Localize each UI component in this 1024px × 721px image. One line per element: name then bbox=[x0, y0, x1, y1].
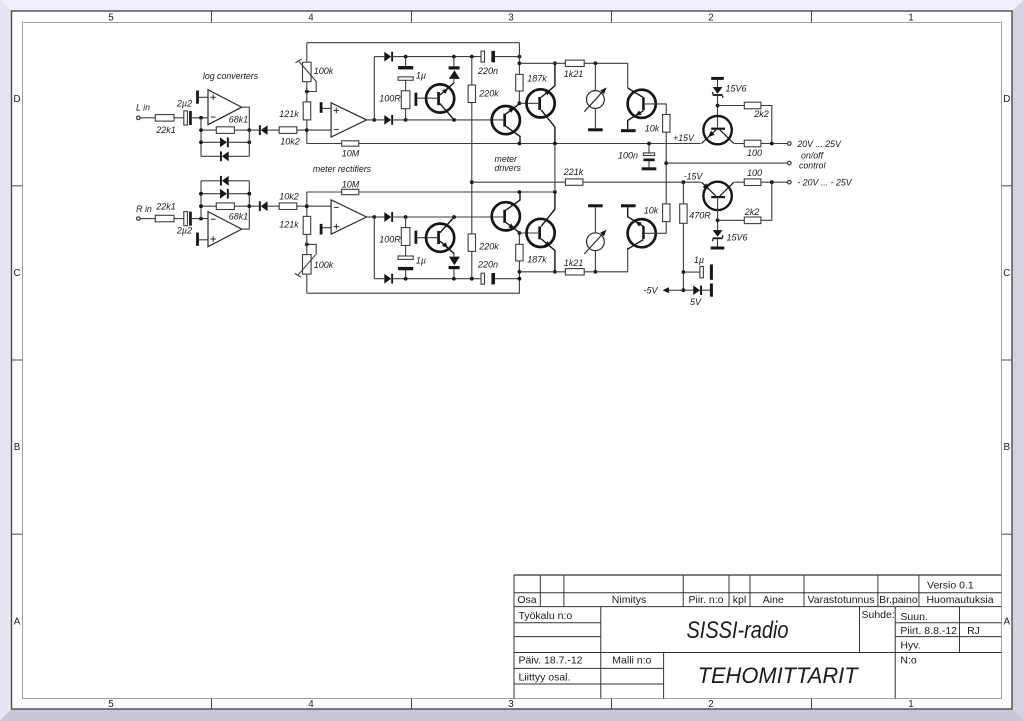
diode D1 (L clamp, right) bbox=[220, 137, 229, 147]
wire bottom rail bbox=[307, 272, 520, 293]
wire bbox=[374, 119, 384, 121]
diode D2 (L clamp, left) bbox=[220, 151, 229, 161]
node +V terminal bbox=[788, 142, 792, 146]
svg-text:A: A bbox=[1004, 617, 1011, 628]
svg-text:TEHOMITTARIT: TEHOMITTARIT bbox=[698, 663, 860, 688]
wire on/off line bbox=[666, 162, 787, 164]
node U4 output bbox=[372, 215, 376, 219]
svg-text:187k: 187k bbox=[527, 255, 547, 265]
node -5V junction bbox=[682, 288, 686, 292]
svg-text:drivers: drivers bbox=[495, 163, 522, 173]
resistor 100 (lower) bbox=[734, 168, 787, 185]
wire bbox=[201, 141, 220, 143]
resistor 22k1 (L) bbox=[155, 115, 176, 135]
wire bbox=[201, 205, 216, 207]
node 187k bottom bbox=[518, 101, 522, 105]
svg-text:22k1: 22k1 bbox=[155, 201, 176, 211]
svg-text:121k: 121k bbox=[279, 109, 299, 119]
wire bbox=[174, 218, 184, 220]
op-amp U2 (L meter rectifier) bbox=[331, 103, 367, 137]
svg-text:15V6: 15V6 bbox=[726, 233, 747, 243]
svg-text:L in: L in bbox=[136, 103, 150, 113]
wire bbox=[584, 63, 628, 88]
svg-text:SISSI-radio: SISSI-radio bbox=[687, 617, 789, 644]
transistor Q6 (R log) bbox=[417, 217, 454, 253]
node Q10 base bbox=[716, 218, 720, 222]
trimmer 100k (R) bbox=[295, 244, 334, 277]
svg-text:221k: 221k bbox=[563, 167, 584, 177]
wire bbox=[249, 205, 259, 207]
label -5V arrow bbox=[643, 285, 683, 295]
node meter L top bbox=[594, 61, 598, 65]
title block grid bbox=[514, 575, 1002, 699]
svg-text:100R: 100R bbox=[379, 235, 401, 245]
node cap junction bbox=[682, 270, 686, 274]
wire bbox=[297, 129, 307, 131]
wire op-amp U1 output bbox=[242, 107, 250, 130]
svg-text:10M: 10M bbox=[342, 149, 360, 159]
ground bar bbox=[320, 102, 323, 113]
wire bbox=[306, 274, 308, 293]
svg-text:Suun.: Suun. bbox=[900, 611, 927, 623]
node on/off terminal bbox=[788, 161, 792, 165]
capacitor 220n (L) bbox=[477, 51, 498, 76]
wire bbox=[373, 217, 375, 279]
wire bbox=[393, 278, 481, 280]
trimmer 100k (L) bbox=[296, 59, 334, 91]
wire bbox=[306, 82, 308, 102]
wire Q3-Q8 tie bbox=[554, 144, 556, 193]
svg-text:10M: 10M bbox=[342, 179, 360, 189]
svg-text:5V: 5V bbox=[690, 297, 702, 307]
wire bbox=[307, 191, 342, 193]
resistor 10M (L feedback) bbox=[342, 141, 360, 159]
diode D9 (R series) bbox=[259, 201, 268, 211]
resistor 121k (R) bbox=[279, 216, 310, 234]
capacitor 220n (R) bbox=[477, 260, 498, 285]
svg-text:1: 1 bbox=[908, 699, 913, 710]
node on/off tee bbox=[664, 161, 668, 165]
svg-text:220k: 220k bbox=[478, 89, 499, 99]
ground (zener Z2) bbox=[711, 247, 725, 250]
svg-text:10k2: 10k2 bbox=[280, 137, 300, 147]
svg-text:2: 2 bbox=[708, 12, 713, 23]
meter M1 (L) bbox=[584, 63, 606, 128]
node trimmer junction R bbox=[305, 243, 309, 247]
ground bar bbox=[196, 233, 199, 246]
capacitor 100n bbox=[618, 144, 655, 168]
svg-text:1µ: 1µ bbox=[694, 255, 704, 265]
svg-text:Aine: Aine bbox=[763, 594, 784, 606]
wire bbox=[229, 180, 250, 182]
wire bbox=[367, 216, 375, 218]
diode D5 (L rect down) bbox=[384, 115, 393, 125]
wire bbox=[373, 57, 375, 120]
svg-text:Malli n:o: Malli n:o bbox=[612, 654, 651, 666]
wire bbox=[367, 119, 375, 121]
node R input terminal bbox=[137, 217, 141, 221]
wire bbox=[201, 193, 220, 195]
diode D10 (R rect up) bbox=[384, 212, 393, 222]
zener Z2 15V6 bbox=[713, 230, 748, 246]
capacitor 1u (R) bbox=[398, 246, 426, 279]
title block text bbox=[517, 580, 993, 688]
svg-text:Piir. n:o: Piir. n:o bbox=[688, 594, 723, 606]
op-amp U3 (R log converter) bbox=[208, 212, 242, 247]
node A junction bbox=[199, 116, 203, 120]
wire bbox=[201, 129, 216, 131]
transistor Q5 (pos regulator) bbox=[702, 116, 734, 144]
wire bbox=[306, 43, 308, 63]
wire bbox=[306, 192, 308, 216]
svg-text:Nimitys: Nimitys bbox=[612, 594, 646, 606]
svg-text:10k2: 10k2 bbox=[279, 191, 299, 201]
wire bbox=[234, 205, 249, 207]
node op-amp U4 inverting bbox=[305, 204, 309, 208]
wire bbox=[199, 96, 208, 98]
svg-text:20V ... 25V: 20V ... 25V bbox=[796, 139, 842, 149]
node 470R top bbox=[682, 180, 686, 184]
resistor 2k2 (lower) bbox=[718, 182, 772, 223]
diode D6 (L log clamp) bbox=[449, 57, 460, 83]
wire bbox=[519, 232, 538, 234]
resistor 10k (R) bbox=[644, 204, 670, 222]
svg-text:kpl: kpl bbox=[733, 594, 746, 606]
transistor Q3 (L driver 2) bbox=[527, 63, 555, 143]
svg-text:1: 1 bbox=[908, 12, 913, 23]
op-amp U1 (L log converter) bbox=[208, 90, 242, 125]
wire bbox=[405, 109, 407, 120]
diode D12 (R log clamp) bbox=[449, 252, 460, 278]
wire bbox=[297, 205, 307, 207]
svg-text:4: 4 bbox=[308, 12, 314, 23]
wire bbox=[393, 119, 503, 121]
wire bbox=[307, 205, 331, 207]
wire bbox=[229, 193, 250, 195]
svg-text:B: B bbox=[14, 442, 21, 453]
resistor 10k2 (L) bbox=[279, 127, 300, 147]
wire bbox=[192, 117, 208, 119]
svg-text:A: A bbox=[14, 617, 21, 628]
svg-text:1k21: 1k21 bbox=[564, 69, 584, 79]
svg-text:2k2: 2k2 bbox=[753, 109, 769, 119]
svg-text:Varastotunnus: Varastotunnus bbox=[808, 594, 875, 606]
svg-text:Huomautuksia: Huomautuksia bbox=[926, 594, 993, 606]
transistor Q4 (L output) bbox=[628, 88, 667, 129]
ground (meter M1) bbox=[588, 128, 603, 131]
resistor 1k21 (R) bbox=[564, 258, 584, 275]
meter M2 (R) bbox=[584, 207, 606, 271]
resistor 220k (R) bbox=[468, 182, 499, 279]
wire bbox=[682, 272, 684, 290]
transistor Q7 (R driver 1) bbox=[492, 192, 520, 233]
ground bar bbox=[320, 224, 323, 235]
wire top rail bbox=[307, 42, 520, 44]
wire -15V line bbox=[472, 181, 566, 183]
wire +15V rail bbox=[359, 143, 701, 145]
transistor Q8 (R driver 2) bbox=[527, 192, 555, 272]
resistor 22k1 (R) bbox=[155, 201, 176, 222]
wire feedback left column bbox=[200, 118, 202, 157]
ground bar bbox=[711, 77, 724, 80]
resistor 187k (R) bbox=[516, 233, 548, 272]
svg-text:68k1: 68k1 bbox=[229, 212, 249, 222]
svg-text:Työkalu n:o: Työkalu n:o bbox=[519, 610, 573, 622]
node Q5 base bbox=[716, 104, 720, 108]
svg-text:15V6: 15V6 bbox=[725, 84, 746, 94]
wire bbox=[140, 218, 155, 220]
resistor 100R (R) bbox=[379, 228, 410, 246]
svg-text:Hyv.: Hyv. bbox=[900, 640, 920, 652]
wire bbox=[201, 180, 220, 182]
svg-text:220n: 220n bbox=[477, 260, 498, 270]
resistor 121k (L) bbox=[279, 102, 310, 120]
wire bbox=[249, 129, 259, 131]
svg-text:3: 3 bbox=[508, 699, 514, 710]
wire bbox=[322, 227, 331, 229]
transistor Q10 (neg regulator) bbox=[702, 182, 734, 230]
wire bbox=[199, 239, 208, 241]
transistor Q2 (L driver 1) bbox=[492, 103, 520, 143]
svg-text:Piirt. 8.8.-12: Piirt. 8.8.-12 bbox=[900, 625, 957, 637]
node U2 output bbox=[372, 118, 376, 122]
svg-text:2µ2: 2µ2 bbox=[176, 98, 192, 108]
svg-text:1k21: 1k21 bbox=[564, 258, 584, 268]
svg-text:control: control bbox=[799, 161, 826, 171]
wire bbox=[307, 129, 331, 131]
ground (Q6 base) bbox=[415, 231, 418, 244]
svg-text:1µ: 1µ bbox=[416, 71, 426, 81]
svg-text:2: 2 bbox=[708, 699, 713, 710]
wire bbox=[393, 216, 503, 218]
wire bbox=[200, 181, 202, 219]
resistor 220k (L) bbox=[468, 57, 499, 183]
diode D13 (5V) bbox=[683, 284, 713, 308]
wire bbox=[229, 141, 250, 143]
svg-text:5: 5 bbox=[108, 12, 114, 23]
svg-text:log converters: log converters bbox=[203, 71, 259, 81]
svg-text:2k2: 2k2 bbox=[744, 207, 760, 217]
node B junction bbox=[199, 217, 203, 221]
ground (Q4) bbox=[621, 129, 636, 132]
svg-text:RJ: RJ bbox=[967, 625, 980, 637]
diode D7 (R clamp, left) bbox=[220, 176, 229, 186]
svg-text:4: 4 bbox=[308, 699, 314, 710]
wire bbox=[192, 218, 208, 220]
svg-text:Liittyy osal.: Liittyy osal. bbox=[519, 671, 571, 683]
svg-text:D: D bbox=[1003, 94, 1010, 105]
wire bbox=[393, 56, 481, 58]
node +V junction bbox=[770, 142, 774, 146]
resistor 10M (R feedback) bbox=[342, 179, 360, 194]
svg-text:10k: 10k bbox=[644, 206, 659, 216]
wire bbox=[307, 143, 342, 145]
svg-text:100: 100 bbox=[747, 148, 762, 158]
transistor Q9 (R output) bbox=[628, 207, 667, 249]
capacitor 1u (L) bbox=[398, 57, 426, 91]
svg-text:-15V: -15V bbox=[684, 171, 704, 181]
resistor 68k1 (L feedback) bbox=[216, 115, 248, 134]
svg-text:Päiv. 18.7.-12: Päiv. 18.7.-12 bbox=[519, 654, 583, 666]
svg-text:on/off: on/off bbox=[801, 151, 825, 161]
wire bbox=[268, 129, 280, 131]
svg-text:22k1: 22k1 bbox=[155, 125, 176, 135]
resistor 221k bbox=[563, 167, 584, 185]
wire bbox=[248, 130, 250, 156]
capacitor 2u2 (R) bbox=[176, 212, 192, 236]
wire bbox=[234, 129, 249, 131]
wire bbox=[584, 248, 628, 272]
wire bbox=[374, 278, 384, 280]
ground (Q9) bbox=[621, 204, 636, 207]
diode D3 (L series) bbox=[259, 125, 268, 135]
svg-text:220k: 220k bbox=[478, 242, 499, 252]
svg-text:100k: 100k bbox=[314, 260, 334, 270]
node 187k top R bbox=[518, 231, 522, 235]
resistor 470R bbox=[680, 182, 712, 272]
svg-text:B: B bbox=[1004, 442, 1011, 453]
wire bbox=[306, 234, 308, 254]
diode D4 (L rect up) bbox=[384, 52, 393, 62]
wire meter line L bbox=[519, 62, 565, 64]
svg-text:220n: 220n bbox=[477, 66, 498, 76]
resistor 100 (upper) bbox=[734, 140, 787, 158]
ground (Q1 base) bbox=[415, 93, 418, 106]
svg-text:C: C bbox=[13, 268, 20, 279]
node -V junction bbox=[770, 180, 774, 184]
resistor 2k2 (upper) bbox=[718, 102, 772, 143]
wire on/off column bbox=[665, 132, 667, 204]
svg-text:N:o: N:o bbox=[900, 654, 917, 666]
wire bbox=[583, 181, 701, 183]
wire bbox=[174, 117, 184, 119]
wire bbox=[140, 117, 155, 119]
svg-text:121k: 121k bbox=[279, 220, 299, 230]
svg-text:Br.paino: Br.paino bbox=[879, 594, 918, 606]
wire meter line R bbox=[519, 271, 565, 273]
wire bbox=[201, 155, 220, 157]
diode D11 (R rect down) bbox=[384, 274, 393, 284]
svg-text:+15V: +15V bbox=[673, 133, 695, 143]
svg-text:470R: 470R bbox=[689, 211, 711, 221]
node 220k junction bbox=[470, 180, 474, 184]
ground bar bbox=[196, 91, 199, 104]
node L input terminal bbox=[137, 116, 141, 120]
zener Z1 15V6 bbox=[713, 80, 747, 127]
resistor 187k (L) bbox=[516, 43, 548, 104]
wire bbox=[374, 56, 384, 58]
wire bbox=[229, 155, 250, 157]
svg-text:10k: 10k bbox=[645, 124, 660, 134]
svg-text:Osa: Osa bbox=[517, 594, 536, 606]
diode D8 (R clamp, right) bbox=[220, 189, 229, 199]
wire op-amp U3 output bbox=[242, 181, 250, 229]
svg-text:meter rectifiers: meter rectifiers bbox=[313, 164, 372, 174]
svg-text:100k: 100k bbox=[314, 66, 334, 76]
svg-text:5: 5 bbox=[108, 699, 114, 710]
svg-text:- 20V ... - 25V: - 20V ... - 25V bbox=[797, 178, 852, 188]
svg-text:100n: 100n bbox=[618, 151, 638, 161]
wire bbox=[374, 216, 384, 218]
svg-text:3: 3 bbox=[508, 12, 514, 23]
capacitor 2u2 (L) bbox=[176, 98, 192, 125]
resistor 100R (L) bbox=[379, 91, 410, 109]
wire bbox=[405, 217, 407, 228]
wire bbox=[306, 120, 308, 144]
svg-text:D: D bbox=[13, 94, 20, 105]
node op-amp U2 inverting bbox=[305, 128, 309, 132]
resistor 1k21 (L) bbox=[564, 60, 584, 79]
resistor 68k1 (R feedback) bbox=[216, 203, 248, 222]
wire bbox=[322, 107, 331, 109]
svg-text:100: 100 bbox=[747, 168, 762, 178]
wire bbox=[495, 278, 520, 280]
svg-text:Versio 0.1: Versio 0.1 bbox=[927, 580, 974, 592]
svg-text:68k1: 68k1 bbox=[229, 115, 249, 125]
wire bbox=[495, 56, 520, 58]
ground (100n) bbox=[642, 167, 657, 170]
wire bbox=[268, 205, 280, 207]
svg-text:Suhde:: Suhde: bbox=[862, 609, 895, 621]
op-amp U4 (R meter rectifier) bbox=[331, 200, 367, 234]
node meter R bbox=[594, 270, 598, 274]
resistor 10k2 (R) bbox=[279, 191, 299, 209]
capacitor 1u (supply) bbox=[683, 255, 713, 280]
svg-text:C: C bbox=[1003, 268, 1010, 279]
svg-text:2µ2: 2µ2 bbox=[176, 225, 192, 235]
svg-text:1µ: 1µ bbox=[416, 256, 426, 266]
node trimmer junction bbox=[305, 90, 309, 94]
ground (meter M2) bbox=[588, 204, 603, 207]
svg-text:-5V: -5V bbox=[643, 285, 658, 295]
wire 10M rail R bbox=[359, 191, 555, 193]
svg-text:R in: R in bbox=[136, 204, 152, 214]
wire bbox=[519, 102, 538, 104]
resistor 10k (L) bbox=[645, 115, 670, 134]
node -V terminal bbox=[788, 180, 792, 184]
svg-text:100R: 100R bbox=[379, 94, 401, 104]
svg-text:187k: 187k bbox=[527, 74, 547, 84]
transistor Q1 (L log) bbox=[417, 83, 454, 120]
